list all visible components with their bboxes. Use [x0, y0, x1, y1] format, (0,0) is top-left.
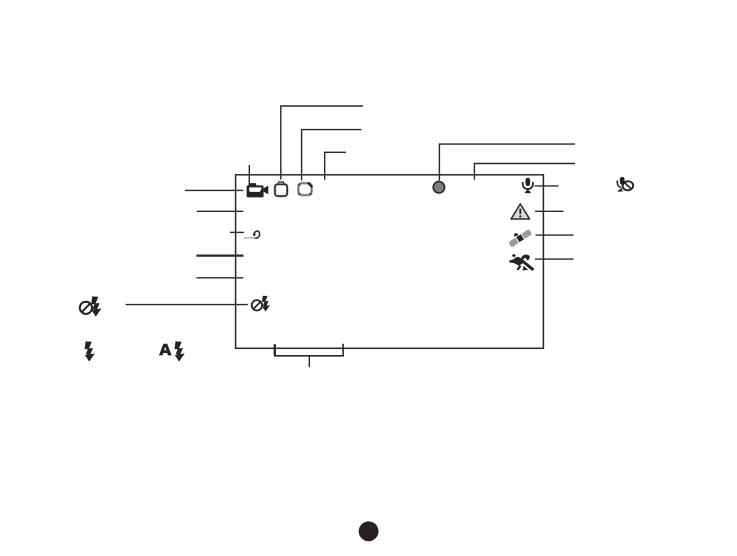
- auto flash icon (A + bolt): [159, 341, 185, 361]
- left callout tick 1 (camcorder): [185, 189, 243, 191]
- right callout tick D (fall warning): [535, 258, 574, 260]
- photo icon 2 (rounded square, marked corner): [298, 183, 311, 195]
- left callout tick 3 (wind cut): [230, 231, 244, 233]
- right callout tick B (warning): [535, 210, 564, 212]
- callout line to flash-off indicator: [126, 304, 248, 306]
- callout line to movie record mode icon (top stub): [248, 165, 250, 185]
- callout line 2 (to photo icon 1): [281, 106, 363, 180]
- warning indicator (triangle with !): [511, 204, 529, 219]
- callout line 6 (top-right pointer): [474, 164, 575, 180]
- microphone indicator: [523, 178, 533, 193]
- photo icon 1 (rounded square with top tab): [275, 182, 287, 196]
- right callout tick C (satellite): [536, 234, 574, 236]
- bottom grouping bracket: [275, 344, 343, 356]
- fall/shake warning indicator (tumbling person): [509, 254, 534, 271]
- movie record mode icon (camcorder): [247, 183, 269, 197]
- recording indicator dot (gray): [433, 182, 444, 193]
- left callout tick 5: [196, 277, 243, 279]
- microphone disabled icon (right of screen): [617, 177, 633, 192]
- right callout tick A (microphone): [535, 185, 559, 187]
- callout line 3 (to photo icon 2): [302, 130, 362, 181]
- left callout tick 2: [197, 210, 244, 212]
- page number dot: [359, 521, 379, 541]
- flash off icon (left margin): [80, 296, 102, 316]
- callout line 5 (to recording dot): [439, 144, 575, 181]
- callout line 4 (top area pointer): [325, 152, 346, 179]
- wind cut icon (curl): [244, 231, 260, 238]
- flash off indicator (inside screen): [252, 296, 270, 312]
- LCD screen outline: [236, 175, 544, 348]
- bolt glyph: [85, 341, 95, 361]
- left callout tick 4 (thick): [196, 254, 243, 256]
- satellite indicator: [508, 229, 532, 247]
